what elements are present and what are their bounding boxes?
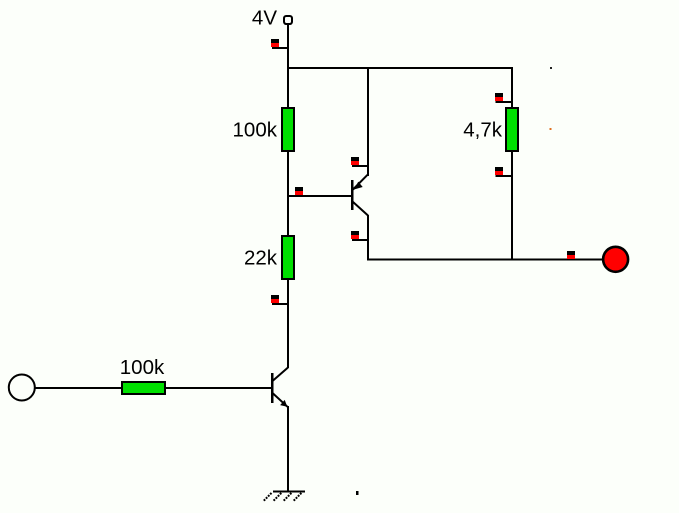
wire: rail down to Q2 emitter	[367, 67, 369, 176]
wire: input terminal to R3	[35, 387, 122, 389]
ground	[273, 491, 305, 493]
wire: R3 to Q1 base	[166, 387, 272, 389]
current probe marker M8	[567, 251, 575, 259]
resistor R3 100k	[122, 382, 165, 394]
resistor R4 4,7k	[506, 108, 518, 151]
wire: rail end down to R4 top	[511, 67, 513, 108]
svg-text:4V: 4V	[252, 7, 277, 30]
wire: output horizontal	[368, 259, 603, 261]
wire: top rail	[287, 67, 513, 69]
wire: Q1 emitter to ground	[287, 406, 289, 492]
output indicator (red lamp)	[603, 247, 628, 272]
wire: terminal to top rail	[287, 25, 289, 70]
current probe marker M6	[495, 93, 513, 102]
resistor R1 100k	[282, 108, 294, 151]
wire: base of Q2	[288, 195, 352, 197]
stray dot 1	[550, 67, 552, 69]
svg-text:100k: 100k	[120, 356, 165, 379]
svg-text:4,7k: 4,7k	[463, 119, 502, 142]
transistor Q2 PNP	[351, 175, 368, 216]
wire: R1 bottom to R2 top	[287, 150, 289, 237]
input terminal	[9, 375, 35, 401]
wire: R2 bottom to Q1 collector	[287, 278, 289, 368]
resistor R2 22k	[282, 236, 294, 279]
svg-text:100k: 100k	[233, 119, 278, 142]
current probe marker M5	[351, 231, 369, 240]
transistor Q1 NPN	[271, 368, 288, 407]
power terminal 4V	[284, 16, 292, 24]
stray mark 3	[356, 491, 359, 495]
stray dot 2	[550, 128, 552, 130]
wire: R4 bottom to output wire	[511, 150, 513, 261]
wire: rail down to R1 top	[287, 67, 289, 108]
current probe marker M4	[351, 157, 369, 166]
current probe marker M7	[495, 167, 513, 176]
svg-text:22k: 22k	[244, 247, 278, 270]
wire: Q2 collector down to output wire	[367, 215, 369, 261]
current probe marker M1	[271, 39, 289, 48]
current probe marker M3	[271, 295, 289, 304]
current probe marker M2	[295, 187, 303, 195]
